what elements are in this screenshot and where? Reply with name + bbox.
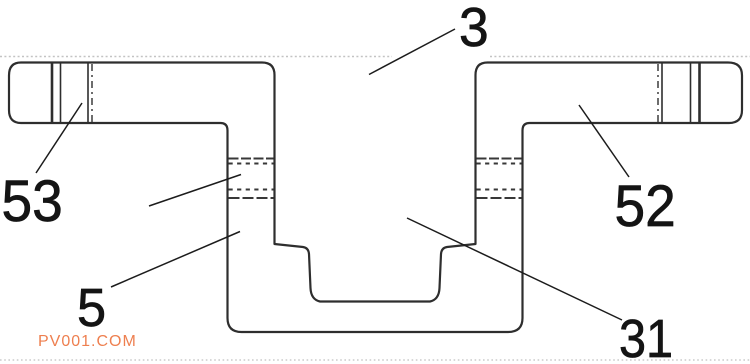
right wall hidden band lower edge	[477, 197, 522, 199]
left wall hidden band lower edge	[229, 197, 274, 199]
left wall hidden band upper edge	[229, 158, 274, 160]
right wall hidden band upper edge	[477, 158, 522, 160]
svg-text:5: 5	[77, 278, 106, 338]
leader line for 5	[111, 232, 240, 288]
left wall hidden band upper dashed	[229, 163, 274, 165]
left arm groove line (thick)	[51, 64, 54, 123]
leader line for 3	[369, 29, 455, 75]
bottom faint dotted rule	[0, 359, 750, 361]
top faint dotted rule	[0, 56, 392, 58]
leader line to left wall band	[149, 175, 241, 207]
right arm groove line (thin)	[690, 64, 692, 123]
right arm groove line (thick)	[698, 64, 701, 123]
leader line for 31	[407, 218, 622, 320]
left arm groove line (thin)	[60, 64, 62, 123]
left wall hidden band lower dashed	[229, 189, 274, 191]
right wall hidden band upper dashed	[477, 163, 522, 165]
left arm section edge 53	[87, 64, 89, 123]
right arm hidden dash-dot line	[657, 64, 659, 122]
part outline (cross-section of body 5)	[9, 63, 742, 333]
left arm hidden dash-dot line	[91, 64, 93, 122]
right wall hidden band lower dashed	[477, 189, 522, 191]
svg-text:53: 53	[2, 169, 63, 234]
leader line for 53	[36, 103, 82, 173]
svg-text:3: 3	[459, 0, 489, 58]
svg-text:PV001.COM: PV001.COM	[38, 333, 137, 350]
leader line for 52	[579, 105, 629, 177]
svg-text:31: 31	[619, 308, 673, 364]
svg-text:52: 52	[615, 174, 676, 239]
right arm section edge 52	[661, 64, 663, 123]
